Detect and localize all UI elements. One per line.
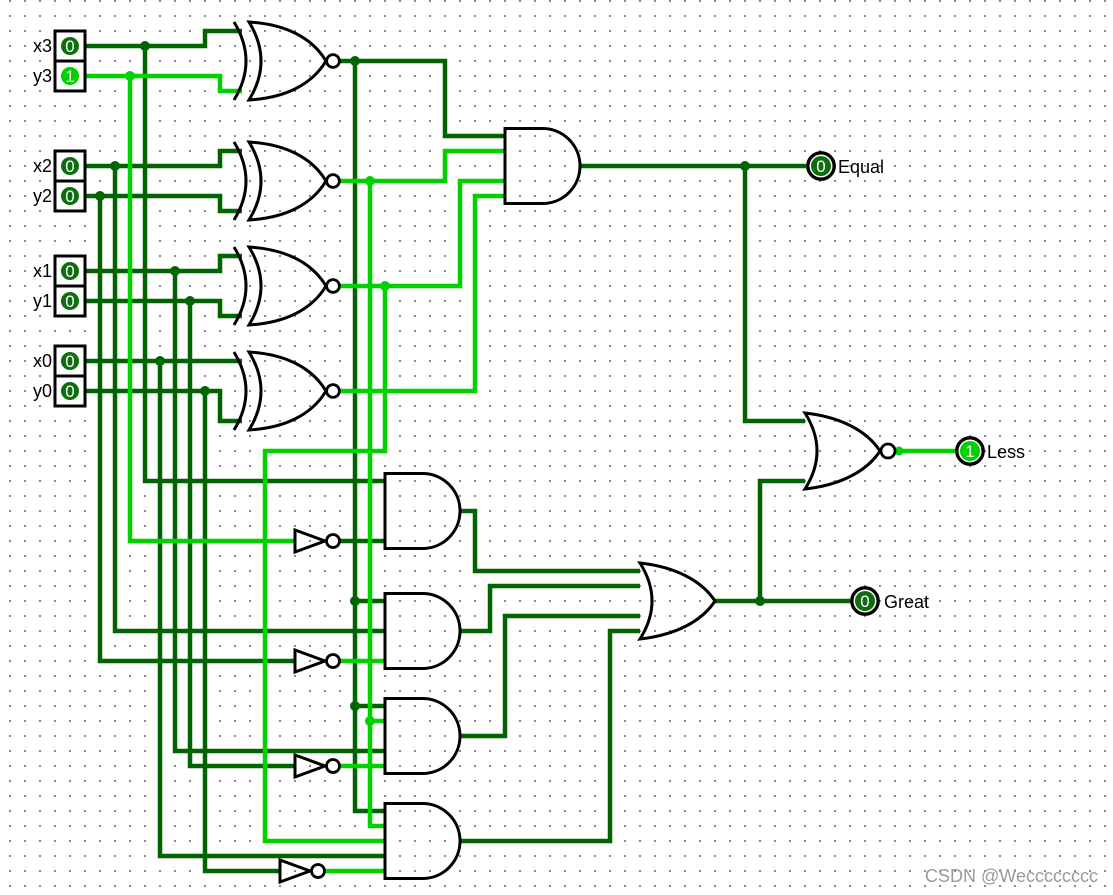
node NOR output stub: [895, 447, 904, 456]
XNOR gate U2 (x2,y2): [234, 142, 339, 220]
svg-text:x2: x2: [33, 156, 52, 176]
svg-text:0: 0: [65, 262, 74, 281]
wire Equal branch down to NOR input: [745, 166, 805, 421]
node x0 junction: [155, 356, 165, 366]
wire NOT2 output to AND2: [338, 659, 385, 664]
svg-text:x0: x0: [33, 351, 52, 371]
AND gate U7: [385, 594, 460, 669]
pin y3: [33, 61, 85, 91]
wire AND4 output to OR-Great input 4: [460, 631, 640, 841]
wire y1 bus down to NOT3: [190, 301, 296, 766]
wire XNOR2 output to AND-Equal input 2: [339, 151, 505, 181]
wire branch XNOR1 to AND2: [355, 599, 385, 604]
pin x0: [33, 346, 85, 376]
AND gate U8: [385, 699, 460, 774]
pin Great output: [852, 588, 929, 614]
wire x2 pin to XNOR2 input: [79, 151, 242, 166]
pin y1: [33, 286, 85, 316]
wire NOT1 output to AND1: [338, 539, 385, 544]
node x1 junction: [170, 266, 180, 276]
wire NOR output to Less pin: [894, 449, 956, 454]
svg-text:0: 0: [860, 592, 869, 611]
svg-text:y1: y1: [33, 291, 52, 311]
wire x0 pin to XNOR4 input: [79, 359, 242, 364]
svg-text:CSDN @Wecccccccc: CSDN @Wecccccccc: [925, 866, 1098, 886]
svg-text:Equal: Equal: [838, 157, 884, 177]
wire y2 bus down to NOT2: [100, 196, 296, 661]
pin x2: [33, 151, 85, 181]
NOT gate U10: [295, 530, 340, 552]
svg-text:0: 0: [65, 352, 74, 371]
svg-text:x1: x1: [33, 261, 52, 281]
pin y2: [33, 181, 85, 211]
svg-text:x3: x3: [33, 36, 52, 56]
node y2 junction: [95, 191, 105, 201]
node x2 junction: [110, 161, 120, 171]
XNOR gate U3 (x1,y1): [234, 247, 339, 325]
XNOR gate U1 (x3,y3): [234, 22, 339, 100]
svg-text:y3: y3: [33, 66, 52, 86]
wire x3 pin to XNOR1 input: [79, 31, 242, 46]
wire XNOR3 bus down to AND4: [265, 286, 385, 841]
wire y1 pin to XNOR3 input: [79, 301, 242, 316]
wire XNOR4 output to AND-Equal input 4: [339, 196, 505, 391]
svg-text:1: 1: [965, 442, 974, 461]
wire branch XNOR2 to AND3: [370, 719, 385, 724]
wire XNOR2 bus down to AND4: [370, 181, 385, 826]
svg-text:Great: Great: [884, 592, 929, 612]
svg-text:Less: Less: [987, 442, 1025, 462]
svg-text:0: 0: [65, 187, 74, 206]
pin x1: [33, 256, 85, 286]
wire y2 pin to XNOR2 input: [79, 196, 242, 211]
node y1 junction: [185, 296, 195, 306]
AND gate U6: [385, 474, 460, 549]
wire x1 bus down to AND3: [175, 271, 385, 751]
wire Great branch up to NOR input: [760, 481, 805, 601]
wire XNOR3 output to AND-Equal input 3: [339, 181, 505, 286]
pin Equal output: [808, 153, 884, 179]
wire x0 bus down to AND4: [160, 361, 385, 856]
NOT gate U13: [280, 860, 325, 882]
pin y0: [33, 376, 85, 406]
NOT gate U12: [295, 755, 340, 777]
NOT gate U11: [295, 650, 340, 672]
wire NOT3 output to AND3: [338, 764, 385, 769]
node XNOR1 output junction: [350, 56, 360, 66]
node XNOR2 output junction: [365, 176, 375, 186]
wire OR-Great output to Great pin: [715, 599, 850, 604]
svg-text:0: 0: [65, 292, 74, 311]
wire y0 pin to XNOR4 input: [79, 391, 242, 421]
node AND3 branch junction g1: [350, 701, 360, 711]
wire XNOR1 bus down to AND4: [355, 61, 385, 811]
svg-text:y2: y2: [33, 186, 52, 206]
node AND3 branch junction g2: [365, 716, 375, 726]
svg-text:1: 1: [65, 67, 74, 86]
wire branch XNOR1 to AND3: [355, 704, 385, 709]
wire AND1 output to OR-Great input 1: [460, 511, 640, 571]
node y0 junction: [200, 386, 210, 396]
wire y3 bus down to NOT1: [130, 76, 296, 541]
wire y0 bus down to NOT4: [205, 391, 281, 871]
wire AND2 output to OR-Great input 2: [460, 586, 640, 631]
svg-text:0: 0: [816, 157, 825, 176]
wire AND3 output to OR-Great input 3: [460, 616, 640, 736]
wire x1 pin to XNOR3 input: [79, 256, 242, 271]
AND gate U5 Equal: [505, 129, 580, 204]
pin x3: [33, 31, 85, 61]
AND gate U9: [385, 804, 460, 879]
svg-text:0: 0: [65, 157, 74, 176]
svg-text:0: 0: [65, 37, 74, 56]
wire AND-Equal output to Equal pin: [580, 164, 806, 169]
wire NOT4 output to AND4: [323, 869, 385, 874]
node AND2 branch junction: [350, 596, 360, 606]
wire x3 bus down to AND1: [145, 46, 385, 481]
node Equal branch junction: [740, 161, 750, 171]
NOR gate U15 Less: [805, 413, 895, 489]
node y3 junction: [125, 71, 135, 81]
OR gate U14 Great: [640, 563, 715, 639]
wire x2 bus down to AND2: [115, 166, 385, 631]
svg-text:0: 0: [65, 382, 74, 401]
node XNOR3 output junction: [380, 281, 390, 291]
svg-text:y0: y0: [33, 381, 52, 401]
XNOR gate U4 (x0,y0): [234, 352, 339, 430]
node Great branch junction: [755, 596, 765, 606]
wire XNOR1 output to AND-Equal input 1: [339, 61, 505, 136]
node x3 junction: [140, 41, 150, 51]
pin Less output: [957, 438, 1025, 464]
wire y3 pin to XNOR1 input: [79, 76, 242, 91]
